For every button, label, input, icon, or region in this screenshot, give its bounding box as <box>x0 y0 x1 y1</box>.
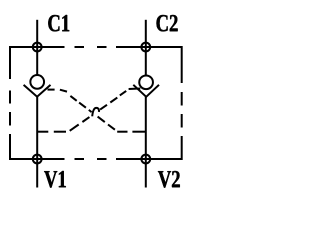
check valve CV2 seat <box>133 85 159 97</box>
crossover hop on pilot line <box>92 108 99 116</box>
wire: CV1 outlet to V1 port <box>36 96 38 188</box>
label V1 <box>44 171 66 188</box>
port C1 <box>33 43 42 52</box>
check valve CV1 ball <box>30 75 44 89</box>
valve body enclosure top edge (dashed) <box>10 46 182 48</box>
pilot line from V1 branch to CV2 (dashed, with crossover hop) <box>37 89 140 132</box>
wire: CV2 outlet to V2 port <box>145 96 147 188</box>
check valve CV1 seat <box>24 85 51 97</box>
label V2 <box>158 171 180 188</box>
check valve CV2 ball <box>139 75 153 89</box>
pilot line from V2 branch to CV1 (dashed) <box>48 90 146 132</box>
valve body enclosure right edge (dashed) <box>181 46 183 160</box>
valve body enclosure bottom edge (dashed) <box>10 158 182 160</box>
valve body enclosure left edge (dashed) <box>9 46 11 160</box>
wire: C2 port line <box>145 20 147 76</box>
port V2 <box>141 155 150 164</box>
label C1 <box>48 15 69 31</box>
label C2 <box>157 15 178 31</box>
wire: C1 port line <box>36 20 38 75</box>
port V1 <box>33 155 42 164</box>
port C2 <box>141 43 150 52</box>
